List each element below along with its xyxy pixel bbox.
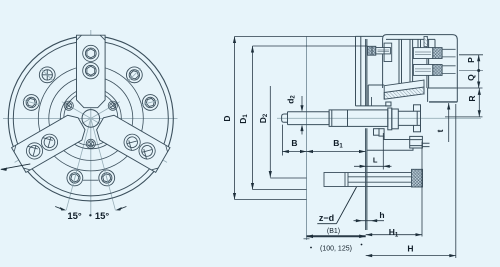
D2 dimension — [269, 86, 271, 178]
screw axis 210deg — [62, 102, 91, 119]
face circle r42 — [49, 76, 133, 160]
75deg line — [91, 118, 116, 210]
svg-text:L: L — [373, 156, 378, 165]
rod d2 — [288, 112, 330, 125]
axis centerline — [277, 117, 481, 119]
body inner verticals — [399, 39, 435, 88]
mounting hole bar (z-d section) — [324, 169, 423, 187]
H arrows — [366, 254, 373, 257]
d2 arrows — [300, 105, 303, 112]
ring circle r30.5 — [60, 88, 121, 149]
d2 dimension arrows — [301, 96, 303, 110]
small screws at r25.4 — [64, 101, 117, 148]
body block — [383, 35, 458, 102]
svg-text:R: R — [467, 95, 477, 101]
bolt 315deg — [123, 63, 147, 87]
L dimension — [354, 165, 392, 167]
leader arrow at left edge — [0, 164, 30, 171]
screw axis 330deg — [91, 102, 120, 119]
screw 210deg — [64, 101, 73, 110]
body front face double line — [365, 39, 367, 230]
R dimension — [478, 88, 480, 117]
t arrow — [447, 103, 450, 110]
15deg dimension arcs and labels — [55, 207, 126, 217]
lower step edge — [367, 148, 413, 150]
screw 330deg — [108, 101, 117, 110]
mounting bolt row 2 — [413, 65, 455, 76]
svg-text:D: D — [222, 115, 232, 121]
T-nut hatched — [412, 169, 423, 187]
arrowheads — [233, 37, 481, 258]
B dimension line — [282, 151, 365, 153]
nose cap — [282, 114, 288, 122]
face circle r52.5 — [38, 66, 143, 171]
neck — [398, 111, 413, 125]
h arrows — [356, 219, 363, 222]
bolt 345deg — [140, 92, 161, 112]
front max-stroke plane line — [306, 37, 308, 241]
ring circle r27 — [64, 91, 118, 145]
P/Q arrows and dot — [477, 55, 480, 62]
jaw screws: lower-left jaw (cross) — [23, 131, 60, 162]
jaw lower-left — [12, 111, 89, 172]
jaw axis 150deg — [15, 118, 91, 162]
svg-text:H: H — [407, 244, 413, 254]
svg-text:P: P — [466, 57, 476, 63]
body inner top line — [386, 38, 435, 40]
D dimension — [234, 37, 236, 200]
jaw top (up) — [77, 35, 106, 108]
svg-text:15°: 15° — [67, 211, 82, 222]
H1 dimension — [366, 234, 422, 236]
pilot squares — [414, 105, 421, 111]
(100,125) thick line — [307, 235, 366, 237]
inner rim circle — [13, 41, 168, 196]
screw r65 — [83, 45, 99, 61]
jaw screws: top jaw (hex) — [23, 45, 158, 162]
screw 90deg — [86, 139, 95, 148]
svg-text:z−d: z−d — [319, 213, 334, 223]
D1 dimension — [252, 46, 254, 190]
rim bolts at r61.6 — [21, 63, 161, 189]
draw rod assembly — [282, 102, 430, 150]
jaw in section — [356, 36, 391, 106]
centerline horizontal — [3, 117, 178, 119]
jaw screws: lower-right jaw (cross) — [121, 131, 158, 162]
jaw lower-right — [93, 111, 170, 172]
H1 arrows — [366, 233, 373, 236]
flange — [388, 108, 392, 130]
bolt 195deg — [21, 92, 42, 112]
hatched gib strip — [424, 36, 427, 46]
pilot block below axis — [410, 136, 423, 148]
jaw axis 30deg — [91, 118, 167, 162]
bore circle — [82, 110, 100, 128]
chord between bottom bolts — [83, 179, 99, 181]
P Q dimension — [478, 55, 480, 88]
svg-text:B: B — [291, 138, 297, 148]
rear hub — [428, 88, 458, 102]
svg-text:t: t — [435, 129, 445, 132]
hanger blocks below rod — [374, 129, 380, 136]
svg-text:15°: 15° — [95, 211, 110, 222]
bolt 75deg — [97, 168, 117, 189]
H dimension — [366, 255, 456, 257]
end block — [392, 109, 399, 129]
bolt 105deg — [65, 168, 85, 189]
step block on rod — [386, 102, 391, 106]
mounting bolt row 1 — [413, 48, 455, 59]
jaw fixing bolt (left, hatched head) — [368, 43, 392, 61]
B arrows — [282, 150, 289, 153]
screw r47.7 — [83, 63, 99, 79]
105deg line — [66, 118, 91, 210]
thick dim arrows — [307, 235, 314, 239]
svg-text:(100, 125): (100, 125) — [320, 246, 352, 253]
z-d leader — [317, 187, 356, 224]
svg-text:Q: Q — [466, 74, 476, 81]
t dimension — [448, 103, 450, 142]
wedge mechanism inclined lines — [372, 80, 425, 106]
sleeve — [329, 110, 388, 127]
outer circle — [8, 36, 173, 201]
svg-text:h: h — [379, 210, 384, 220]
L arrows (outside pointing in) — [360, 165, 367, 168]
h dimension — [354, 220, 385, 222]
svg-text:(B1): (B1) — [327, 228, 340, 235]
R arrows — [478, 88, 481, 95]
centerline vertical — [90, 30, 92, 216]
bolt 225deg — [35, 63, 59, 87]
